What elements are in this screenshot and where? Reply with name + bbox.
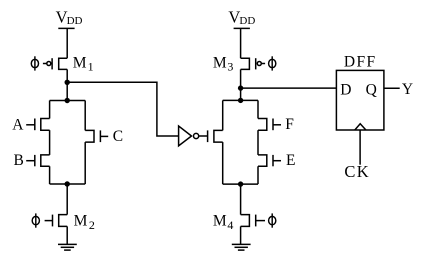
- svg-text:C: C: [113, 128, 123, 145]
- inverter U1: [179, 126, 199, 146]
- label M3: [213, 54, 234, 73]
- svg-text:2: 2: [89, 218, 95, 232]
- wire node X2 to DFF D input: [241, 87, 337, 89]
- node PDN2 top junction dot: [238, 98, 243, 103]
- wire PDN2 left branch upper: [222, 100, 224, 130]
- wire PDN2 top rail: [223, 99, 258, 101]
- svg-text:DD: DD: [67, 15, 83, 27]
- svg-text:M: M: [213, 212, 227, 229]
- power VDD (left) rail tick: [58, 27, 74, 29]
- transistor E (NMOS channel): [258, 155, 267, 166]
- transistor A gate: [26, 119, 35, 131]
- ground (right): [232, 244, 251, 250]
- wire PDN1 bottom to M2 drain: [66, 184, 68, 215]
- wire PDN1 top rail: [50, 100, 86, 102]
- wire PDN1 right branch upper: [84, 101, 86, 131]
- wire VDD to M1 source: [66, 28, 68, 58]
- wire M4 source to ground: [240, 226, 242, 244]
- transistor M2 (NMOS): [45, 215, 68, 227]
- ground (left): [58, 244, 77, 250]
- svg-text:F: F: [285, 116, 294, 133]
- node X2 (dynamic node, junction dot): [238, 85, 243, 90]
- wire PDN2 left branch lower: [222, 142, 224, 184]
- wire PDN1 left branch middle: [49, 130, 51, 155]
- svg-text:1: 1: [88, 60, 94, 74]
- svg-text:M: M: [74, 212, 88, 229]
- svg-text:M: M: [213, 54, 227, 71]
- label phi (M3 gate): [269, 56, 276, 70]
- node PDN1 bottom junction dot: [65, 181, 70, 186]
- svg-text:A: A: [12, 117, 24, 134]
- label M2: [74, 212, 95, 232]
- wire node X1 to inverter input: [67, 82, 178, 136]
- label M4: [213, 212, 234, 232]
- svg-text:Y: Y: [402, 81, 413, 98]
- transistor C gate: [100, 130, 108, 142]
- wire PDN1 left branch lower: [49, 166, 51, 184]
- power VDD (right) rail tick: [234, 27, 250, 29]
- svg-text:Q: Q: [366, 82, 377, 99]
- wire PDN2 bottom rail: [223, 183, 258, 185]
- wire PDN2 right branch lower: [257, 166, 259, 184]
- clock edge triangle (DFF clock pin): [355, 124, 366, 130]
- flip-flop U2 (DFF box): [336, 70, 384, 130]
- wire PDN1 right branch lower: [84, 142, 86, 184]
- transistor F gate: [273, 119, 281, 131]
- wire inverter output to pulldown gate: [199, 135, 208, 137]
- svg-text:DFF: DFF: [344, 53, 377, 70]
- node X1 (dynamic node, junction dot): [65, 80, 70, 85]
- label M1: [73, 55, 94, 74]
- wire M2 source to ground: [66, 226, 68, 244]
- svg-text:4: 4: [227, 218, 233, 232]
- svg-text:B: B: [14, 152, 24, 169]
- wire VDD to M3 source: [240, 28, 242, 58]
- wire M1 drain to PDN1 top: [66, 69, 68, 100]
- label phi (M4 gate): [269, 213, 276, 227]
- label phi (M2 gate): [32, 213, 39, 227]
- transistor M1 (PMOS): [43, 58, 67, 69]
- wire M3 drain to PDN2 top: [240, 69, 242, 100]
- transistor A (NMOS channel): [41, 119, 50, 131]
- wire PDN1 left branch upper: [49, 101, 51, 119]
- wire PDN2 right branch middle: [257, 130, 259, 155]
- node PDN2 bottom junction dot: [238, 181, 243, 186]
- svg-text:3: 3: [227, 59, 233, 73]
- wire CK to DFF clock pin: [359, 130, 361, 165]
- svg-text:DD: DD: [239, 15, 255, 27]
- power VDD (left): [56, 7, 83, 27]
- svg-text:E: E: [286, 152, 295, 169]
- transistor E gate: [273, 155, 281, 166]
- svg-text:M: M: [73, 55, 87, 72]
- transistor B gate: [26, 155, 35, 166]
- svg-text:D: D: [340, 82, 351, 99]
- wire PDN2 right branch upper: [257, 100, 259, 118]
- wire Q output to Y: [384, 87, 400, 89]
- label phi (M1 gate): [31, 56, 38, 70]
- transistor M4 (NMOS): [241, 215, 265, 227]
- node PDN1 top junction dot: [65, 98, 70, 103]
- transistor driven by inverter (NMOS channel): [214, 130, 223, 142]
- transistor M3 (PMOS): [241, 58, 266, 69]
- svg-text:CK: CK: [344, 162, 370, 181]
- wire PDN1 bottom rail: [50, 183, 86, 185]
- power VDD (right): [228, 7, 255, 27]
- transistor driven by inverter: gate bar: [207, 130, 209, 142]
- transistor B (NMOS channel): [41, 155, 50, 166]
- transistor C (NMOS channel): [85, 130, 94, 142]
- transistor F (NMOS channel): [258, 119, 267, 131]
- wire PDN2 bottom to M4 drain: [240, 184, 242, 215]
